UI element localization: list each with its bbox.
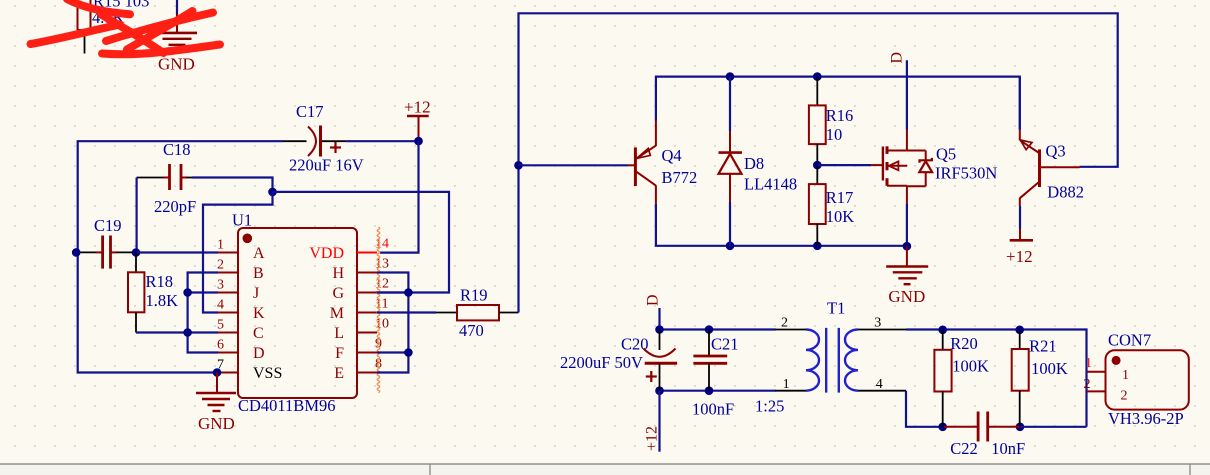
transformer T1 (1:25) — [755, 299, 906, 416]
svg-text:IRF530N: IRF530N — [935, 164, 997, 183]
svg-text:470: 470 — [459, 321, 484, 340]
power +12 (top, bar symbol) — [404, 98, 431, 139]
capacitor C22 (10nF) — [944, 412, 1025, 459]
ground symbol (Q5 source) — [886, 246, 928, 306]
svg-text:Q4: Q4 — [662, 146, 682, 165]
svg-text:R19: R19 — [460, 286, 488, 305]
svg-text:C20: C20 — [621, 335, 649, 354]
wire: U1 pins 13/12/9/8 tie vertical — [377, 273, 408, 373]
svg-text:GND: GND — [158, 55, 195, 74]
svg-text:CON7: CON7 — [1108, 330, 1151, 349]
orange error squiggle over right pins — [377, 227, 380, 393]
svg-text:100nF: 100nF — [692, 400, 734, 419]
svg-text:H: H — [332, 265, 344, 282]
svg-text:CD4011BM96: CD4011BM96 — [238, 396, 336, 415]
resistor R18 (1.8K) — [128, 253, 178, 333]
svg-text:6: 6 — [217, 338, 224, 353]
resistor R15 (partially cut off at top) — [78, 0, 150, 54]
resistor R16 (10) — [809, 77, 853, 166]
svg-text:220uF 16V: 220uF 16V — [289, 156, 364, 175]
svg-text:+12: +12 — [1006, 247, 1033, 266]
svg-text:LL4148: LL4148 — [744, 175, 797, 194]
svg-text:C18: C18 — [163, 140, 191, 159]
svg-text:R20: R20 — [950, 334, 978, 353]
junction: C21 bottom — [705, 386, 714, 395]
wire: D net stub to primary top rail — [658, 308, 660, 330]
wire: primary bottom rail — [660, 390, 776, 392]
junction: left rail / C19 — [72, 248, 81, 257]
svg-text:M: M — [330, 305, 344, 322]
ground symbol (top-left) — [157, 14, 197, 74]
svg-text:C21: C21 — [711, 335, 739, 354]
svg-text:VSS: VSS — [253, 365, 282, 382]
svg-text:+12: +12 — [404, 98, 431, 117]
junction: R17 bottom — [813, 242, 822, 251]
IC U1 CD4011BM96 body — [232, 211, 357, 416]
resistor R20 (100K) — [934, 330, 989, 427]
svg-text:10K: 10K — [826, 207, 855, 226]
svg-text:F: F — [335, 345, 344, 362]
capacitor C18 (220pF) — [137, 140, 197, 216]
connector CON7 pin stubs — [1084, 356, 1106, 392]
wire: U1 pins 2/3/5/6 tie vertical — [188, 273, 218, 353]
junction: R20 bottom — [938, 423, 947, 432]
wire: RC node to U1 pin 1 — [136, 251, 218, 253]
junction: Q4 base tee — [514, 161, 523, 170]
svg-text:U1: U1 — [232, 211, 252, 230]
svg-text:220pF: 220pF — [154, 197, 196, 216]
svg-text:GND: GND — [198, 414, 235, 433]
svg-text:R18: R18 — [146, 272, 174, 291]
svg-text:C19: C19 — [94, 216, 122, 235]
capacitor C17 (220uF 16V, polarized) — [283, 102, 364, 175]
svg-text:R16: R16 — [826, 106, 854, 125]
svg-text:C22: C22 — [950, 439, 978, 458]
wire: Q4 emitter up / inner top rail — [656, 77, 1020, 130]
wire: C18 left down to RC node — [136, 178, 138, 253]
power +12 (Q3, bar below) — [1006, 229, 1033, 267]
wire: Q5 source down to ground node — [906, 204, 908, 247]
svg-text:1: 1 — [1085, 356, 1092, 371]
resistor R17 (10K) — [809, 165, 854, 246]
svg-text:100K: 100K — [952, 357, 989, 376]
wire: C18 net to U1 pin 12/13 vertical — [273, 192, 450, 293]
U1 pin names — [253, 245, 344, 382]
wire: +12 down to U1 pin 14 (VDD) — [380, 141, 419, 253]
transistor Q5 IRF530N (NMOS) — [871, 130, 997, 204]
junction: pin 9 tie — [404, 348, 413, 357]
diode D8 LL4148 — [719, 131, 798, 202]
svg-text:C: C — [253, 325, 264, 342]
junction: pin 5 tie — [183, 328, 192, 337]
svg-text:2: 2 — [781, 316, 788, 331]
svg-text:D8: D8 — [744, 154, 764, 173]
svg-text:+12: +12 — [644, 426, 661, 451]
wire: Q3 collector to +12 — [1019, 206, 1021, 229]
wire: Q3 emitter from inner rail — [1019, 77, 1021, 130]
svg-text:E: E — [334, 365, 344, 382]
red hand-drawn scribble annotations (top-left) — [31, 0, 221, 54]
capacitor C20 (2200uF 50V, polarized) — [560, 330, 677, 391]
junction: D8 bottom — [726, 242, 735, 251]
wire: Q4 collector down / bottom rail — [656, 204, 907, 246]
U1 pin numbers right — [375, 237, 389, 372]
net label D (drain) — [889, 52, 906, 64]
svg-text:1: 1 — [217, 238, 224, 253]
wire: left rail (C17/C19/VSS net) — [78, 141, 283, 372]
wire: bottom rail to CON7 — [1020, 426, 1087, 428]
junction: R21 bottom — [1016, 423, 1025, 432]
svg-text:Q3: Q3 — [1046, 142, 1066, 161]
transistor Q4 B772 (PNP) — [628, 121, 697, 204]
svg-text:G: G — [332, 285, 344, 302]
svg-text:D: D — [253, 345, 265, 362]
wire: outer feedback loop (R19 - top - Q3 base) — [519, 13, 1118, 312]
wire: gate wire to Q5 — [817, 164, 871, 166]
svg-text:L: L — [334, 325, 344, 342]
wire: C17 right to +12 junction — [346, 140, 418, 142]
wire: U1 pin 11 to R19 — [377, 311, 436, 313]
svg-text:GND: GND — [888, 287, 925, 306]
svg-text:3: 3 — [874, 316, 881, 331]
ground symbol (U1 VSS) — [196, 373, 236, 434]
svg-text:R21: R21 — [1029, 337, 1057, 356]
svg-text:1:25: 1:25 — [755, 397, 784, 416]
svg-text:2: 2 — [1121, 389, 1128, 404]
svg-text:C17: C17 — [296, 102, 324, 121]
connector CON7 VH3.96-2P body — [1106, 330, 1189, 428]
svg-text:10: 10 — [826, 125, 843, 144]
svg-text:100K: 100K — [1031, 359, 1068, 378]
junction: C21 top — [705, 325, 714, 334]
wire: C20 bottom to +12 — [658, 391, 660, 452]
svg-text:D: D — [889, 52, 906, 64]
resistor R19 (470) — [436, 286, 519, 341]
junction: R16/R17/gate node — [813, 161, 822, 170]
svg-text:VDD: VDD — [309, 245, 344, 262]
svg-text:K: K — [253, 305, 265, 322]
junction: R16 top — [813, 72, 822, 81]
junction: C20 top — [655, 325, 664, 334]
svg-text:2200uF 50V: 2200uF 50V — [560, 353, 643, 372]
wire: T1 pin 4 down to bottom rail — [906, 391, 944, 427]
svg-text:VH3.96-2P: VH3.96-2P — [1108, 409, 1184, 428]
wire: D8 bottom lead — [729, 202, 731, 246]
junction: pin 12 tie — [404, 288, 413, 297]
wire: to Q4 base — [519, 164, 629, 166]
svg-text:4: 4 — [217, 298, 224, 313]
capacitor C21 (100nF) — [692, 330, 739, 419]
svg-text:1: 1 — [1122, 368, 1129, 383]
svg-text:1.8K: 1.8K — [146, 291, 179, 310]
power +12 (rotated, bottom) — [644, 426, 661, 451]
U1 pin numbers left — [217, 238, 224, 373]
svg-text:10nF: 10nF — [991, 439, 1025, 458]
junction: Q5 source / bottom rail / GND — [903, 242, 912, 251]
svg-text:J: J — [253, 285, 259, 302]
svg-text:10: 10 — [375, 317, 389, 332]
capacitor C19 — [80, 216, 136, 269]
svg-text:3: 3 — [217, 278, 224, 293]
transistor Q3 D882 (NPN, mirrored) — [1020, 130, 1084, 206]
junction: D8 top — [726, 72, 735, 81]
net label D (primary top) — [645, 294, 662, 306]
svg-text:D882: D882 — [1047, 183, 1084, 202]
U1 left pin stubs 1-7 — [218, 253, 238, 373]
U1 right pin stubs 8-14 — [357, 253, 377, 373]
junction: pin 3 tie — [183, 288, 192, 297]
sheet border bottom — [0, 464, 1210, 475]
svg-text:4: 4 — [876, 377, 883, 392]
svg-text:5: 5 — [217, 318, 224, 333]
junction: +12 / C17 / VDD rail — [414, 137, 423, 146]
wire: net to top-left ground — [176, 0, 178, 15]
svg-text:2: 2 — [217, 258, 224, 273]
svg-text:A: A — [253, 245, 265, 262]
junction: C20 bottom — [655, 386, 664, 395]
junction: R20 top — [938, 326, 947, 335]
svg-text:B772: B772 — [662, 168, 698, 187]
wire: R18 bottom to U1 pin 5 — [136, 331, 218, 333]
junction: C19/C18/R18/pin1 RC node — [132, 248, 141, 257]
wire: secondary top rail — [906, 330, 1087, 427]
svg-text:2: 2 — [1084, 377, 1091, 392]
wire: primary top rail — [660, 328, 776, 330]
junction: U1 pin 7 / GND — [213, 368, 222, 377]
svg-text:1: 1 — [783, 377, 790, 392]
resistor R21 (100K) — [1012, 330, 1068, 427]
wire: D8 top lead — [729, 77, 731, 131]
wire: C18 net L-path to U1 pin 4 — [203, 192, 273, 313]
svg-text:D: D — [645, 294, 662, 306]
junction: R21 top — [1015, 326, 1024, 335]
junction: C18 right net — [268, 188, 277, 197]
svg-text:B: B — [253, 265, 264, 282]
svg-text:T1: T1 — [827, 299, 845, 318]
wire: D net stub to Q5 drain — [906, 60, 908, 129]
svg-text:R17: R17 — [826, 188, 854, 207]
svg-text:Q5: Q5 — [936, 145, 956, 164]
wire: C18 right to corner and junction — [192, 178, 273, 192]
